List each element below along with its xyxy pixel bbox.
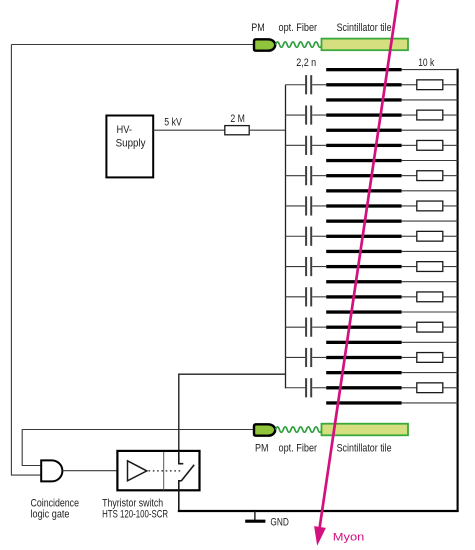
resistor R6 (10 k) xyxy=(417,231,443,241)
plate P16 xyxy=(326,295,401,298)
wire capacitor C4 to plate P8 xyxy=(312,175,326,177)
wire capacitor C2 to plate P4 xyxy=(312,114,326,116)
plate P15 xyxy=(326,280,401,283)
svg-text:Scintillator tile: Scintillator tile xyxy=(337,443,392,455)
capacitor C4 (2,2 n) xyxy=(306,166,311,185)
muon track (magenta) xyxy=(320,0,398,529)
dotted control line xyxy=(149,470,183,472)
plate P10 xyxy=(326,204,401,207)
wire HV bus to capacitor C11 xyxy=(286,387,306,389)
optical fiber (bottom) xyxy=(276,427,322,432)
resistor R2 (10 k) xyxy=(417,110,443,120)
wire HV bus to capacitor C2 xyxy=(286,114,306,116)
svg-text:logic gate: logic gate xyxy=(31,509,70,521)
svg-text:2 M: 2 M xyxy=(230,113,245,125)
muon arrowhead xyxy=(314,526,326,546)
plate P19 xyxy=(326,341,401,344)
svg-text:Scintillator tile: Scintillator tile xyxy=(337,22,392,34)
photomultiplier PM (bottom) xyxy=(254,424,275,435)
capacitor C7 (2,2 n) xyxy=(306,257,311,276)
plate P8 xyxy=(326,174,401,177)
svg-text:10 k: 10 k xyxy=(418,57,434,69)
capacitor C11 (2,2 n) xyxy=(306,378,311,397)
plate P23 xyxy=(326,401,401,404)
svg-text:5 kV: 5 kV xyxy=(164,117,182,129)
wire resistor R11 to ground bus xyxy=(443,387,458,389)
wire HV bus to capacitor C1 xyxy=(286,84,306,86)
wire plate P14 to resistor R7 xyxy=(402,266,417,268)
capacitor C8 (2,2 n) xyxy=(306,287,311,306)
plate P12 xyxy=(326,235,401,238)
wire resistor R2 to ground bus xyxy=(443,114,458,116)
wire resistor R10 to ground bus xyxy=(443,356,458,358)
wire plate P8 to resistor R4 xyxy=(402,175,417,177)
capacitor C5 (2,2 n) xyxy=(306,196,311,215)
plate P17 xyxy=(326,310,401,313)
resistor R10 (10 k) xyxy=(417,353,443,363)
svg-text:HV-: HV- xyxy=(117,124,133,136)
wire plate P5 to ground bus xyxy=(402,129,458,131)
wire resistor R3 to ground bus xyxy=(443,144,458,146)
wire plate P4 to resistor R2 xyxy=(402,114,417,116)
wire resistor R6 to ground bus xyxy=(443,235,458,237)
resistor R3 (10 k) xyxy=(417,140,443,150)
wire plate P12 to resistor R6 xyxy=(402,235,417,237)
capacitor C3 (2,2 n) xyxy=(306,136,311,155)
wire capacitor C7 to plate P14 xyxy=(312,266,326,268)
wire HV supply to resistor 2M xyxy=(153,129,225,131)
plate P18 xyxy=(326,326,401,329)
wire bottom PM to coincidence gate upper input xyxy=(22,430,254,466)
resistor 2M xyxy=(225,126,249,135)
wire HV bus to capacitor C4 xyxy=(286,175,306,177)
wire plate P13 to ground bus xyxy=(402,250,458,252)
svg-text:Myon: Myon xyxy=(333,531,365,543)
svg-text:PM: PM xyxy=(255,443,269,455)
wire plate P23 to ground bus xyxy=(402,402,458,404)
wire capacitor C1 to plate P2 xyxy=(312,84,326,86)
resistor R8 (10 k) xyxy=(417,292,443,302)
switch fixed contact (top lead) xyxy=(179,451,184,464)
plate P13 xyxy=(326,250,401,253)
resistor R4 (10 k) xyxy=(417,171,443,181)
thyristor box divider xyxy=(163,452,165,490)
plate P6 xyxy=(326,144,401,147)
thyristor switch box U2 xyxy=(117,451,199,490)
wire plate P9 to ground bus xyxy=(402,190,458,192)
wire HV bus to capacitor C6 xyxy=(286,235,306,237)
wire plate P21 to ground bus xyxy=(402,372,458,374)
HV supply box U1 xyxy=(106,116,153,178)
wire plate P18 to resistor R9 xyxy=(402,326,417,328)
wire resistor R8 to ground bus xyxy=(443,296,458,298)
plate P3 xyxy=(326,98,401,101)
scintillator tile (top) xyxy=(322,39,409,51)
capacitor C2 (2,2 n) xyxy=(306,105,311,124)
capacitor C1 (2,2 n) xyxy=(306,75,311,94)
wire plate P6 to resistor R3 xyxy=(402,144,417,146)
wire plate P11 to ground bus xyxy=(402,220,458,222)
coincidence logic gate (AND) xyxy=(41,460,62,481)
wire plate P19 to ground bus xyxy=(402,341,458,343)
svg-text:HTS 120-100-SCR: HTS 120-100-SCR xyxy=(102,509,168,521)
wire left frame down to coincidence gate lower input xyxy=(11,45,41,476)
wire resistor 2M to HV bus xyxy=(249,129,285,131)
plate P7 xyxy=(326,159,401,162)
wire plate P15 to ground bus xyxy=(402,281,458,283)
switch blade xyxy=(181,465,194,481)
wire HV bus to capacitor C5 xyxy=(286,205,306,207)
wire resistor R9 to ground bus xyxy=(443,326,458,328)
wire resistor R5 to ground bus xyxy=(443,205,458,207)
bottom frame wire (ground rail) xyxy=(178,510,459,512)
plate P2 xyxy=(326,83,401,86)
capacitor C10 (2,2 n) xyxy=(306,348,311,367)
wire resistor R1 to ground bus xyxy=(443,84,458,86)
svg-text:opt. Fiber: opt. Fiber xyxy=(279,22,318,34)
svg-text:opt. Fiber: opt. Fiber xyxy=(279,443,318,455)
wire plate P1 to ground bus xyxy=(402,69,458,71)
plate P4 xyxy=(326,113,401,116)
wire capacitor C9 to plate P18 xyxy=(312,326,326,328)
ground bus (right vertical) xyxy=(457,69,459,512)
wire plate P7 to ground bus xyxy=(402,160,458,162)
wire plate P22 to resistor R11 xyxy=(402,387,417,389)
wire resistor R7 to ground bus xyxy=(443,266,458,268)
scintillator tile (bottom) xyxy=(322,424,409,436)
ground GND symbol xyxy=(245,511,265,521)
wire plate P17 to ground bus xyxy=(402,311,458,313)
resistor R1 (10 k) xyxy=(417,80,443,90)
wire plate P16 to resistor R8 xyxy=(402,296,417,298)
wire HV bus to capacitor C10 xyxy=(286,356,306,358)
photomultiplier PM (top) xyxy=(254,39,275,50)
wire capacitor C5 to plate P10 xyxy=(312,205,326,207)
wire plate P3 to ground bus xyxy=(402,99,458,101)
wire HV bus to capacitor C3 xyxy=(286,144,306,146)
resistor R11 (10 k) xyxy=(417,383,443,393)
wire HV bus to capacitor C9 xyxy=(286,326,306,328)
wire resistor R4 to ground bus xyxy=(443,175,458,177)
wire capacitor C11 to plate P22 xyxy=(312,387,326,389)
plate P14 xyxy=(326,265,401,268)
plate P5 xyxy=(326,129,401,132)
wire plate P10 to resistor R5 xyxy=(402,205,417,207)
wire gate output to thyristor input xyxy=(63,470,128,472)
switch bottom lead xyxy=(179,481,182,511)
plate P21 xyxy=(326,371,401,374)
plate P9 xyxy=(326,189,401,192)
svg-text:2,2 n: 2,2 n xyxy=(296,57,316,69)
svg-text:Supply: Supply xyxy=(116,137,146,149)
resistor R5 (10 k) xyxy=(417,201,443,211)
wire trigger: HV bus to thyristor switch xyxy=(179,374,286,451)
capacitor C6 (2,2 n) xyxy=(306,227,311,246)
wire plate P2 to resistor R1 xyxy=(402,84,417,86)
wire capacitor C3 to plate P6 xyxy=(312,144,326,146)
plate P1 xyxy=(326,68,401,71)
amplifier triangle inside thyristor box xyxy=(128,461,147,481)
svg-text:PM: PM xyxy=(251,22,265,34)
wire capacitor C6 to plate P12 xyxy=(312,235,326,237)
wire capacitor C10 to plate P20 xyxy=(312,356,326,358)
resistor R7 (10 k) xyxy=(417,262,443,272)
plate P22 xyxy=(326,386,401,389)
resistor R9 (10 k) xyxy=(417,322,443,332)
wire top PM to left frame xyxy=(11,44,254,46)
wire capacitor C8 to plate P16 xyxy=(312,296,326,298)
wire plate P20 to resistor R10 xyxy=(402,356,417,358)
plate P11 xyxy=(326,220,401,223)
capacitor C9 (2,2 n) xyxy=(306,318,311,337)
optical fiber (top) xyxy=(276,42,322,47)
wire HV bus to capacitor C7 xyxy=(286,266,306,268)
svg-text:GND: GND xyxy=(270,516,289,528)
wire HV bus to capacitor C8 xyxy=(286,296,306,298)
HV bus (left vertical) xyxy=(285,85,287,389)
plate P20 xyxy=(326,356,401,359)
